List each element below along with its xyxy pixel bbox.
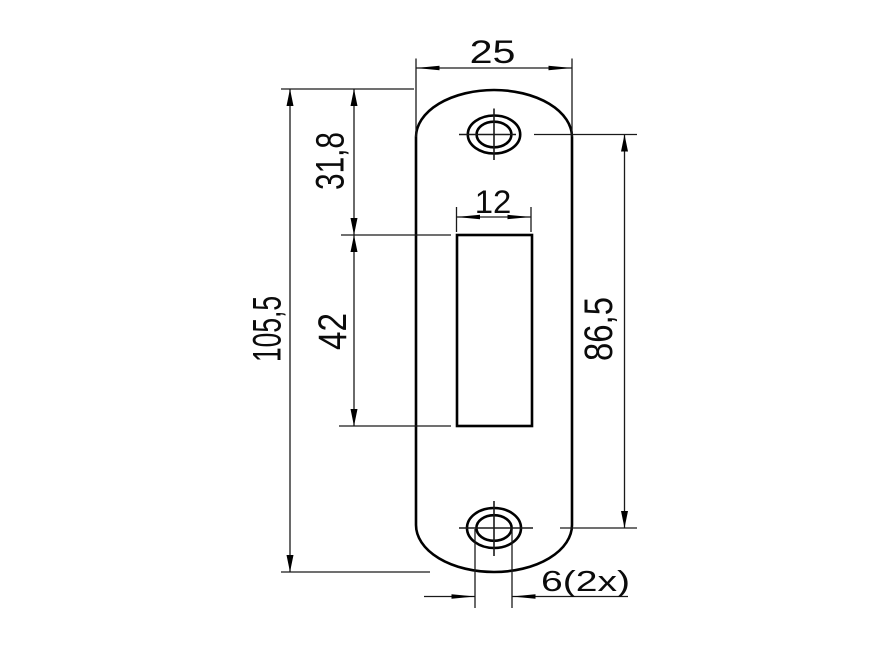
bottom screw hole countersink bbox=[467, 508, 521, 548]
svg-text:86,5: 86,5 bbox=[577, 297, 621, 361]
top screw hole bore bbox=[477, 122, 512, 148]
extension line at plate bottom (105,5) bbox=[281, 571, 430, 573]
latch cutout rectangle bbox=[457, 235, 532, 426]
svg-text:31,8: 31,8 bbox=[308, 132, 352, 190]
dimension 42 line with arrows bbox=[351, 235, 358, 426]
dimension 12 extension lines bbox=[457, 207, 532, 232]
dimension text 31,8 bbox=[308, 132, 352, 190]
dimension 6(2x) line with arrows bbox=[424, 594, 628, 598]
top hole vertical centerline bbox=[493, 109, 495, 161]
bottom hole horizontal centerline / extension to 86,5 bbox=[459, 527, 637, 529]
svg-text:6(2x): 6(2x) bbox=[541, 566, 630, 598]
dimension text 6(2x) bbox=[541, 566, 630, 598]
svg-text:12: 12 bbox=[475, 184, 512, 220]
top hole horizontal centerline / extension to 86,5 bbox=[459, 134, 637, 136]
extension line at cutout bottom (42) bbox=[339, 425, 451, 427]
dimension text 105,5 bbox=[245, 296, 289, 362]
shared mid extension line (31,8 / 42 at cutout top) bbox=[341, 234, 451, 236]
dimension 25 extension lines bbox=[416, 59, 572, 138]
dimension 25 line with arrows bbox=[416, 66, 572, 70]
svg-text:25: 25 bbox=[470, 34, 516, 70]
svg-text:105,5: 105,5 bbox=[245, 296, 289, 362]
dimension text 25 bbox=[470, 34, 516, 70]
bottom screw hole bore bbox=[476, 515, 511, 541]
plate outline bbox=[416, 90, 572, 572]
svg-text:42: 42 bbox=[311, 313, 355, 350]
dimension 31,8 line with arrows bbox=[351, 89, 358, 235]
dimension text 86,5 bbox=[577, 297, 621, 361]
dimension text 12 bbox=[475, 184, 512, 220]
dimension 105,5 line with arrows bbox=[287, 89, 294, 572]
dimension 6(2x) extension lines bbox=[475, 529, 512, 608]
bottom hole vertical centerline bbox=[493, 501, 495, 556]
dimension 86,5 line with arrows bbox=[621, 135, 628, 529]
top screw hole countersink bbox=[468, 116, 520, 154]
shared top extension line (105,5 and 31,8) bbox=[281, 88, 414, 90]
dimension text 42 bbox=[311, 313, 355, 350]
dimension 12 line with arrows bbox=[457, 215, 532, 219]
